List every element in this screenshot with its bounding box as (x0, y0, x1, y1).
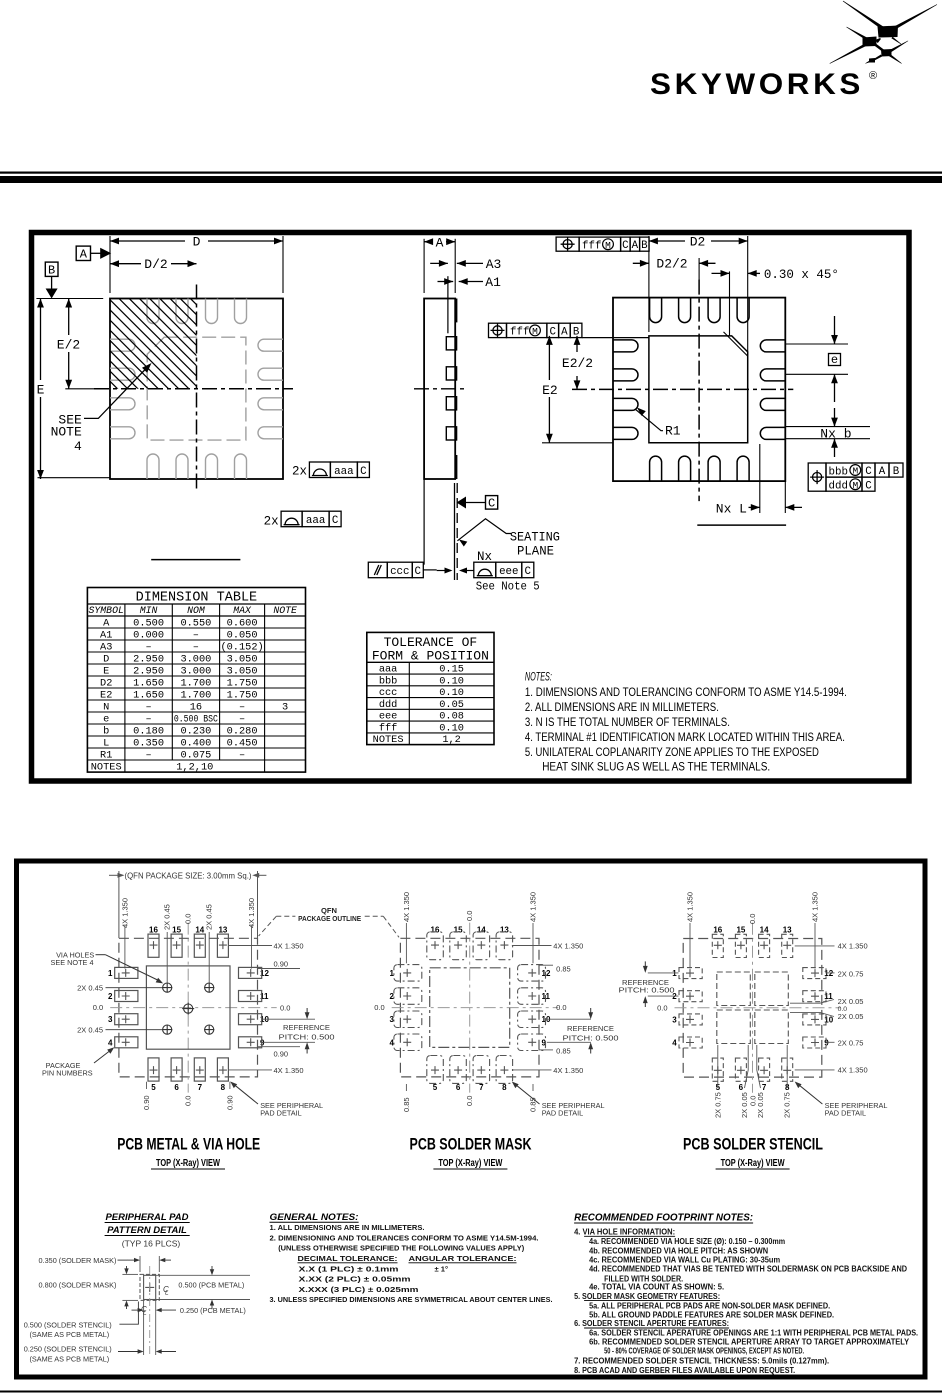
svg-text:6a. SOLDER STENCIL APERATURE O: 6a. SOLDER STENCIL APERATURE OPENINGS AR… (589, 1328, 918, 1337)
svg-text:–: – (146, 641, 152, 653)
pad detail drawing (24, 1256, 250, 1363)
chamfer witness line (724, 332, 748, 356)
svg-text:b: b (103, 725, 109, 737)
dimension E (36, 298, 103, 300)
svg-text:B: B (641, 240, 648, 252)
svg-text:NOTES: NOTES (373, 734, 404, 746)
svg-text:(TYP 16 PLCS): (TYP 16 PLCS) (122, 1239, 181, 1249)
dimension Nx L (759, 444, 761, 513)
svg-text:1.650: 1.650 (133, 677, 164, 689)
R1 leader (637, 408, 646, 416)
svg-text:3: 3 (108, 1015, 113, 1024)
dimension E2 (548, 336, 550, 380)
seating plane label (457, 519, 511, 541)
svg-text:(SAME AS PCB METAL): (SAME AS PCB METAL) (30, 1354, 110, 1363)
dimension D2/2 (633, 262, 649, 264)
svg-text:5b. ALL GROUND PADDLE FEATURES: 5b. ALL GROUND PADDLE FEATURES ARE SOLDE… (589, 1311, 834, 1320)
svg-text:0.550: 0.550 (180, 617, 211, 629)
svg-text:SKYWORKS: SKYWORKS (650, 68, 864, 101)
svg-text:9: 9 (824, 1039, 829, 1048)
svg-text:A3: A3 (486, 257, 502, 272)
svg-text:2X 0.45: 2X 0.45 (163, 904, 172, 930)
svg-text:See Note 5: See Note 5 (476, 580, 540, 594)
svg-text:3. UNLESS SPECIFIED DIMENSIONS: 3. UNLESS SPECIFIED DIMENSIONS ARE SYMME… (270, 1295, 553, 1304)
svg-text:M: M (532, 326, 538, 337)
svg-text:E/2: E/2 (57, 338, 80, 353)
svg-text:4X 1.350: 4X 1.350 (838, 942, 868, 951)
svg-text:2X 0.75: 2X 0.75 (838, 969, 864, 978)
svg-text:ccc: ccc (390, 566, 409, 578)
svg-text:3: 3 (282, 701, 288, 713)
svg-text:X.XXX (3 PLC) ± 0.025mm: X.XXX (3 PLC) ± 0.025mm (299, 1285, 419, 1294)
solder mask openings (394, 965, 422, 982)
svg-text:PAD DETAIL: PAD DETAIL (542, 1109, 584, 1118)
svg-text:0.050: 0.050 (227, 629, 258, 641)
svg-text:4X 1.350: 4X 1.350 (553, 1066, 583, 1075)
svg-text:Nx b: Nx b (820, 426, 851, 441)
svg-text:PITCH: 0.500: PITCH: 0.500 (563, 1034, 619, 1043)
svg-text:A: A (436, 235, 444, 250)
svg-text:B: B (893, 466, 900, 478)
svg-text:9: 9 (260, 1038, 265, 1047)
svg-text:TOP (X-Ray) VIEW: TOP (X-Ray) VIEW (156, 1157, 220, 1169)
svg-text:± 1°: ± 1° (435, 1264, 449, 1273)
svg-text:7: 7 (479, 1083, 484, 1092)
svg-text:8: 8 (221, 1083, 226, 1092)
svg-text:PLANE: PLANE (517, 545, 554, 559)
svg-text:0.0: 0.0 (184, 1096, 193, 1106)
seating plane datum C (423, 479, 425, 565)
bottom view exposed pad with chamfer (649, 336, 748, 443)
svg-text:4X 1.350: 4X 1.350 (686, 892, 695, 922)
stencil apertures (679, 968, 702, 979)
datum B (45, 262, 58, 276)
svg-text:0.0: 0.0 (748, 914, 757, 924)
svg-text:0.075: 0.075 (180, 749, 211, 761)
svg-text:2X 0.75: 2X 0.75 (713, 1092, 722, 1118)
svg-text:7: 7 (762, 1083, 767, 1092)
svg-text:0.250 (PCB METAL): 0.250 (PCB METAL) (180, 1306, 246, 1315)
svg-text:6b. RECOMMENDED SOLDER STENCIL: 6b. RECOMMENDED SOLDER STENCIL APERTURE … (589, 1338, 910, 1347)
dimension e (785, 343, 848, 345)
svg-text:0.0: 0.0 (280, 1003, 290, 1012)
position fff frame top (556, 237, 579, 251)
svg-text:(UNLESS OTHERWISE SPECIFIED TH: (UNLESS OTHERWISE SPECIFIED THE FOLLOWIN… (278, 1244, 524, 1253)
svg-text:C: C (550, 327, 557, 339)
svg-text:eee: eee (499, 566, 518, 578)
svg-text:2. DIMENSIONING AND TOLERANCES: 2. DIMENSIONING AND TOLERANCES CONFORM T… (270, 1234, 539, 1243)
svg-text:14: 14 (195, 925, 204, 934)
svg-text:0.90: 0.90 (274, 960, 289, 969)
svg-text:PITCH: 0.500: PITCH: 0.500 (279, 1033, 335, 1042)
svg-text:4a. RECOMMENDED VIA HOLE SIZE: 4a. RECOMMENDED VIA HOLE SIZE (Ø): 0.150… (589, 1237, 785, 1246)
via holes (163, 983, 172, 992)
svg-text:PAD DETAIL: PAD DETAIL (825, 1109, 867, 1118)
svg-text:e: e (103, 713, 109, 725)
bottom view terminals (650, 298, 662, 323)
svg-text:1. ALL DIMENSIONS ARE IN MILLI: 1. ALL DIMENSIONS ARE IN MILLIMETERS. (270, 1223, 425, 1232)
svg-text:PITCH: 0.500: PITCH: 0.500 (619, 986, 675, 995)
svg-text:2. ALL DIMENSIONS ARE IN MILLI: 2. ALL DIMENSIONS ARE IN MILLIMETERS. (525, 702, 719, 714)
svg-text:QFN: QFN (321, 908, 337, 915)
dimension Nx b (785, 426, 870, 428)
svg-text:PIN NUMBERS: PIN NUMBERS (42, 1069, 93, 1078)
svg-text:4X 1.350: 4X 1.350 (553, 942, 583, 951)
dimension D/2 (110, 263, 141, 265)
svg-text:5a. ALL PERIPHERAL PCB PADS AR: 5a. ALL PERIPHERAL PCB PADS ARE NON-SOLD… (589, 1301, 830, 1310)
svg-text:REFERENCE: REFERENCE (567, 1024, 614, 1033)
svg-text:SYMBOL: SYMBOL (89, 605, 124, 616)
bottom labels view2 (405, 1084, 407, 1091)
svg-text:4c. RECOMMENDED VIA WALL Cu PL: 4c. RECOMMENDED VIA WALL Cu PLATING: 30-… (589, 1256, 780, 1265)
svg-text:FORM & POSITION: FORM & POSITION (372, 649, 489, 664)
svg-text:0.250 (SOLDER STENCIL): 0.250 (SOLDER STENCIL) (24, 1345, 112, 1354)
dimension D2 (649, 240, 685, 242)
svg-text:0.000: 0.000 (133, 629, 164, 641)
svg-text:4. TERMINAL #1 IDENTIFICATION: 4. TERMINAL #1 IDENTIFICATION MARK LOCAT… (525, 732, 845, 744)
svg-text:5. SOLDER MASK GEOMETRY FEATUR: 5. SOLDER MASK GEOMETRY FEATURES: (574, 1292, 720, 1301)
svg-text:C: C (360, 466, 367, 478)
svg-text:8. PCB ACAD AND GERBER FILES A: 8. PCB ACAD AND GERBER FILES AVAILABLE U… (574, 1366, 795, 1375)
svg-text:C: C (488, 497, 495, 511)
tolerance of form and position table (367, 632, 494, 746)
svg-text:X.XX (2 PLC) ± 0.05mm: X.XX (2 PLC) ± 0.05mm (299, 1275, 411, 1284)
svg-text:4X 1.350: 4X 1.350 (274, 1066, 304, 1075)
svg-text:4X 1.350: 4X 1.350 (120, 898, 129, 928)
svg-text:3.000: 3.000 (180, 653, 211, 665)
position fff frame left (489, 323, 507, 337)
svg-text:E: E (37, 382, 45, 397)
right side labels view2 (512, 945, 552, 947)
svg-text:2.950: 2.950 (133, 653, 164, 665)
svg-text:0.600: 0.600 (227, 617, 258, 629)
svg-text:E2: E2 (542, 383, 558, 398)
break line below top view (151, 559, 240, 561)
right side labels view3 (795, 945, 835, 947)
svg-text:13: 13 (500, 925, 509, 934)
svg-text:16: 16 (149, 925, 158, 934)
top view centerlines (196, 285, 198, 490)
svg-text:M: M (852, 480, 858, 491)
svg-text:4: 4 (108, 1038, 113, 1047)
svg-text:NOTES:: NOTES: (525, 672, 552, 684)
svg-text:–: – (239, 713, 245, 725)
svg-text:C: C (622, 240, 629, 252)
svg-text:6. SOLDER STENCIL APERTURE FEA: 6. SOLDER STENCIL APERTURE FEATURES: (574, 1319, 729, 1328)
svg-text:0.90: 0.90 (274, 1050, 289, 1059)
svg-text:10: 10 (542, 1015, 551, 1024)
svg-text:SEATING: SEATING (510, 531, 560, 545)
svg-text:0.500 BSC: 0.500 BSC (174, 713, 218, 725)
package outline (dashed) (119, 938, 258, 1077)
side view centerline (414, 388, 466, 390)
svg-text:A1: A1 (485, 275, 501, 290)
svg-text:0.0: 0.0 (556, 1003, 566, 1012)
svg-text:13: 13 (783, 926, 792, 935)
notes list (525, 672, 847, 774)
svg-text:7: 7 (198, 1083, 203, 1092)
side view terminals (446, 337, 456, 350)
svg-text:2X 0.45: 2X 0.45 (205, 904, 214, 930)
svg-text:0.500: 0.500 (133, 617, 164, 629)
bottom rule (0, 1391, 942, 1393)
svg-text:N: N (103, 701, 109, 713)
svg-text:A3: A3 (100, 641, 112, 653)
svg-text:3.050: 3.050 (227, 665, 258, 677)
svg-text:PATTERN DETAIL: PATTERN DETAIL (107, 1225, 187, 1236)
svg-text:0.280: 0.280 (227, 725, 258, 737)
svg-text:1. DIMENSIONS AND TOLERANCING: 1. DIMENSIONS AND TOLERANCING CONFORM TO… (525, 687, 847, 699)
left reference pitch view3 (648, 972, 679, 974)
svg-text:(QFN PACKAGE SIZE: 3.00mm Sq.: (QFN PACKAGE SIZE: 3.00mm Sq.) (125, 872, 252, 881)
svg-text:B: B (48, 264, 55, 278)
svg-text:0.500 (SOLDER STENCIL): 0.500 (SOLDER STENCIL) (24, 1320, 112, 1329)
svg-text:L: L (103, 737, 109, 749)
paddle mask opening (430, 968, 510, 1048)
package outline (dashed) (400, 938, 539, 1077)
dimension D (110, 240, 185, 242)
svg-text:12: 12 (542, 969, 551, 978)
svg-text:A: A (80, 248, 88, 262)
svg-text:8: 8 (502, 1083, 507, 1092)
right side labels view1 (228, 945, 272, 947)
svg-text:–: – (193, 641, 199, 653)
view3 PCB solder stencil (619, 892, 888, 1118)
svg-text:NOTES: NOTES (91, 761, 122, 773)
svg-text:ddd: ddd (829, 481, 848, 493)
chamfer dimension 0.30 x 45 (729, 271, 731, 336)
view1 PCB metal and via hole (42, 871, 334, 1118)
svg-text:50 - 80% COVERAGE OF SOLDER MA: 50 - 80% COVERAGE OF SOLDER MASK OPENING… (604, 1347, 804, 1356)
svg-text:aaa: aaa (306, 515, 326, 527)
svg-text:4X 1.350: 4X 1.350 (247, 898, 256, 928)
svg-text:D: D (193, 235, 201, 250)
svg-text:PAD DETAIL: PAD DETAIL (260, 1109, 302, 1118)
top view hidden pads (gray) (110, 299, 283, 480)
svg-text:(0.152): (0.152) (220, 641, 263, 653)
svg-text:0.0: 0.0 (374, 1003, 384, 1012)
svg-text:0.85: 0.85 (556, 965, 571, 974)
svg-text:3.000: 3.000 (180, 665, 211, 677)
svg-text:M: M (852, 466, 858, 477)
top view exposed pad outline (gray, chamfer top-left) (147, 337, 246, 440)
svg-text:3. N IS THE TOTAL NUMBER OF TE: 3. N IS THE TOTAL NUMBER OF TERMINALS. (525, 717, 730, 729)
dimension E2/2 (576, 336, 578, 352)
svg-text:0.230: 0.230 (180, 725, 211, 737)
break line below bottom view (697, 524, 786, 526)
svg-text:A: A (632, 240, 639, 252)
svg-text:HEAT SINK SLUG AS WELL AS THE: HEAT SINK SLUG AS WELL AS THE TERMINALS. (542, 762, 770, 774)
svg-text:–: – (146, 749, 152, 761)
svg-text:TOP (X-Ray) VIEW: TOP (X-Ray) VIEW (438, 1157, 502, 1169)
svg-text:15: 15 (454, 925, 463, 934)
svg-text:2X 0.05: 2X 0.05 (838, 997, 864, 1006)
svg-text:0.90: 0.90 (142, 1095, 151, 1110)
svg-text:A: A (103, 617, 110, 629)
svg-text:D/2: D/2 (144, 257, 167, 272)
svg-text:0.350 (SOLDER MASK): 0.350 (SOLDER MASK) (39, 1256, 117, 1265)
dimension E/2 (65, 388, 108, 390)
svg-text:e: e (831, 353, 838, 367)
svg-text:0.800 (SOLDER MASK): 0.800 (SOLDER MASK) (39, 1280, 117, 1289)
svg-text:DIMENSION TABLE: DIMENSION TABLE (136, 590, 258, 605)
side view body (424, 299, 455, 480)
svg-text:–: – (146, 701, 152, 713)
svg-text:16: 16 (431, 925, 440, 934)
svg-text:REFERENCE: REFERENCE (283, 1023, 330, 1032)
svg-text:6: 6 (456, 1083, 461, 1092)
stencil center 2x2 apertures (717, 972, 751, 1006)
svg-text:2x: 2x (292, 465, 307, 479)
svg-text:1,2: 1,2 (442, 734, 461, 746)
svg-text:2X 0.05: 2X 0.05 (838, 1012, 864, 1021)
svg-text:R1: R1 (100, 749, 112, 761)
svg-text:0.400: 0.400 (180, 737, 211, 749)
svg-text:–: – (239, 749, 245, 761)
svg-text:2X 0.45: 2X 0.45 (77, 983, 103, 992)
svg-text:ANGULAR TOLERANCE:: ANGULAR TOLERANCE: (409, 1254, 517, 1263)
svg-text:14: 14 (477, 925, 486, 934)
svg-text:C: C (865, 480, 872, 492)
centerlines (469, 923, 471, 1093)
svg-text:E: E (103, 665, 109, 677)
svg-text:1: 1 (672, 969, 677, 978)
datum A (76, 246, 90, 260)
centerlines (752, 923, 754, 1093)
svg-text:4d. RECOMMENDED THAT VIAS BE T: 4d. RECOMMENDED THAT VIAS BE TENTED WITH… (589, 1265, 907, 1274)
svg-text:D2: D2 (100, 677, 112, 689)
svg-text:DECIMAL TOLERANCE:: DECIMAL TOLERANCE: (298, 1254, 398, 1263)
svg-text:2.950: 2.950 (133, 665, 164, 677)
svg-text:5: 5 (151, 1083, 156, 1092)
svg-text:15: 15 (736, 926, 745, 935)
svg-text:C: C (525, 566, 532, 578)
svg-text:4e. TOTAL VIA COUNT AS SHOWN:: 4e. TOTAL VIA COUNT AS SHOWN: 5. (589, 1283, 724, 1292)
svg-text:MIN: MIN (140, 605, 158, 616)
svg-text:1.750: 1.750 (227, 689, 258, 701)
svg-text:–: – (146, 713, 152, 725)
svg-text:1.700: 1.700 (180, 689, 211, 701)
svg-text:–: – (193, 629, 199, 641)
svg-text:4X 1.350: 4X 1.350 (529, 892, 538, 922)
svg-text:7. RECOMMENDED SOLDER STENCIL: 7. RECOMMENDED SOLDER STENCIL THICKNESS:… (574, 1356, 829, 1365)
svg-text:E2: E2 (100, 689, 112, 701)
peripheral metal pads (115, 967, 138, 978)
centerlines (187, 923, 189, 1093)
svg-text:2X 0.05: 2X 0.05 (756, 1092, 765, 1118)
svg-text:C: C (415, 566, 422, 578)
Skyworks logo star graphic (830, 1, 938, 64)
svg-text:1.750: 1.750 (227, 677, 258, 689)
package outline (dashed) (683, 939, 822, 1078)
bottom labels view3 (717, 1045, 719, 1088)
svg-text:A: A (561, 327, 568, 339)
svg-text:1.700: 1.700 (180, 677, 211, 689)
svg-text:5: 5 (433, 1083, 438, 1092)
svg-text:PACKAGE OUTLINE: PACKAGE OUTLINE (298, 916, 361, 923)
svg-text:14: 14 (760, 926, 769, 935)
svg-text:13: 13 (218, 925, 227, 934)
svg-text:PERIPHERAL PAD: PERIPHERAL PAD (105, 1212, 188, 1223)
svg-text:M: M (605, 240, 611, 251)
svg-text:A: A (879, 466, 886, 478)
svg-text:0.85: 0.85 (402, 1097, 411, 1112)
svg-text:A1: A1 (100, 629, 112, 641)
svg-text:GENERAL NOTES:: GENERAL NOTES: (270, 1212, 359, 1223)
bottom view centerlines (698, 280, 700, 502)
svg-text:Nx L: Nx L (716, 501, 747, 516)
svg-text:–: – (239, 701, 245, 713)
svg-text:0.0: 0.0 (465, 911, 474, 921)
svg-text:fff: fff (510, 327, 529, 339)
svg-text:L: L (143, 1310, 147, 1317)
svg-text:2x: 2x (264, 515, 279, 529)
parallelism ccc frame (368, 562, 387, 578)
svg-text:®: ® (869, 70, 877, 82)
dimension A (423, 239, 425, 293)
svg-text:2: 2 (108, 992, 113, 1001)
eee tolerance arrows (437, 570, 449, 572)
svg-text:16: 16 (190, 701, 202, 713)
svg-text:C: C (332, 515, 339, 527)
bottom labels view1 (146, 1082, 148, 1089)
svg-text:2X 0.45: 2X 0.45 (77, 1025, 103, 1034)
svg-text:6: 6 (174, 1083, 179, 1092)
svg-text:D: D (103, 653, 109, 665)
svg-text:PCB SOLDER MASK: PCB SOLDER MASK (410, 1136, 532, 1154)
svg-text:4: 4 (74, 439, 82, 454)
svg-text:5. UNILATERAL COPLANARITY ZONE: 5. UNILATERAL COPLANARITY ZONE APPLIES T… (525, 747, 819, 759)
svg-text:0.90: 0.90 (225, 1095, 234, 1110)
bottom view package outline (613, 298, 785, 482)
svg-text:0.0: 0.0 (93, 1003, 103, 1012)
svg-text:R1: R1 (665, 424, 681, 439)
svg-text:4X 1.350: 4X 1.350 (838, 1066, 868, 1075)
svg-text:0.350: 0.350 (133, 737, 164, 749)
svg-text:X.X (1 PLC) ± 0.1mm: X.X (1 PLC) ± 0.1mm (299, 1264, 399, 1273)
svg-text:4: 4 (672, 1039, 677, 1048)
svg-text:D2: D2 (690, 235, 706, 250)
svg-text:3: 3 (672, 1015, 677, 1024)
svg-text:RECOMMENDED FOOTPRINT NOTES:: RECOMMENDED FOOTPRINT NOTES: (574, 1212, 753, 1224)
svg-text:PCB METAL & VIA HOLE: PCB METAL & VIA HOLE (117, 1136, 260, 1154)
svg-text:L: L (165, 1290, 169, 1297)
general notes (270, 1212, 553, 1304)
svg-text:2X 0.75: 2X 0.75 (838, 1039, 864, 1048)
svg-text:E2/2: E2/2 (562, 356, 593, 371)
svg-text:D2/2: D2/2 (656, 256, 687, 271)
svg-text:PCB SOLDER STENCIL: PCB SOLDER STENCIL (683, 1136, 823, 1154)
dimension table (87, 588, 305, 774)
svg-text:aaa: aaa (334, 466, 354, 478)
svg-text:1,2,10: 1,2,10 (176, 761, 213, 773)
svg-text:2X 0.75: 2X 0.75 (783, 1092, 792, 1118)
svg-text:SEE NOTE 4: SEE NOTE 4 (51, 958, 94, 967)
svg-text:1: 1 (108, 969, 113, 978)
svg-text:0.500 (PCB METAL): 0.500 (PCB METAL) (178, 1280, 244, 1289)
svg-text:3.050: 3.050 (227, 653, 258, 665)
svg-text:C: C (865, 466, 872, 478)
svg-text:NOM: NOM (187, 605, 206, 616)
svg-text:4. VIA HOLE INFORMATION:: 4. VIA HOLE INFORMATION: (574, 1228, 675, 1237)
svg-text:4X 1.350: 4X 1.350 (402, 892, 411, 922)
svg-text:0.0: 0.0 (657, 1003, 667, 1012)
svg-text:1.650: 1.650 (133, 689, 164, 701)
svg-text:0.0: 0.0 (465, 1096, 474, 1106)
frame 1 border (32, 233, 910, 782)
svg-text:0.85: 0.85 (529, 1097, 538, 1112)
svg-text:4X 1.350: 4X 1.350 (274, 942, 304, 951)
